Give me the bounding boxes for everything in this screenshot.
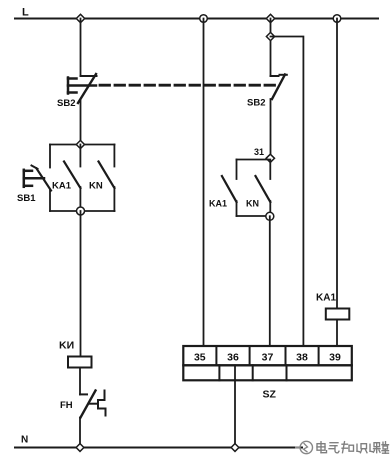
watermark icon [296,441,312,453]
wire L line [15,18,378,20]
wire coil to FH [79,368,81,395]
svg-text:L: L [22,7,29,19]
svg-text:35: 35 [194,352,206,364]
node on L at branch 1 (diamond) [76,14,84,22]
node bottom of right group (circle) [266,212,274,220]
terminal divider 36/37 [249,346,251,365]
pushbutton SB1 NO contact (start) [32,145,52,212]
left parallel group bottom rail [50,210,115,212]
wire N line [15,447,302,449]
node bottom of left group (circle) [77,207,85,215]
pushbutton SB2 NO contact (right) [271,75,287,159]
svg-text:36: 36 [227,352,239,364]
wire branch4 L to coil KA1 [336,19,338,309]
svg-text:37: 37 [262,352,274,364]
wire group to coil KИ [80,211,82,357]
node top of left group (diamond) [76,140,84,148]
wire coil KA1 to terminal 39 [336,320,338,347]
coil KA1 [326,309,350,320]
知 [342,442,354,453]
relay contact KN (right group, NO) [256,161,271,216]
svg-text:SB1: SB1 [17,193,36,204]
terminal divider 37/38 [285,346,287,365]
wire branch1 from L to SB2 [80,19,82,75]
svg-text:38: 38 [296,352,308,364]
堂 [382,442,389,454]
bottom row divider c [286,365,288,380]
svg-text:KA1: KA1 [316,293,336,304]
电 [317,442,327,453]
node on L at branch 3 (diamond) [266,14,274,22]
svg-text:31: 31 [254,147,264,157]
svg-text:39: 39 [329,352,341,364]
svg-text:KA1: KA1 [52,181,72,192]
terminal strip SZ bottom row [183,365,351,380]
pushbutton SB2 NC contact (stop) [78,74,97,103]
bottom row divider a [218,365,220,380]
mechanical link dashed line between SB2 contacts [100,84,276,87]
课 [370,443,380,453]
svg-text:SB2: SB2 [57,98,75,109]
node on N at FH branch (diamond) [76,444,84,452]
left parallel group top rail [50,144,115,146]
thermal overload contact FH (NC) [80,391,106,418]
svg-text:KN: KN [246,199,259,209]
wire SB2 to parallel group [80,100,82,145]
node on N at terminal wire (diamond) [231,444,239,452]
right parallel group top rail [237,159,271,161]
terminal strip SZ top row [183,346,351,365]
relay contact KA1 (right group, NO) [222,160,237,217]
pushbutton SB2 actuator (E) [68,78,96,94]
svg-text:N: N [21,435,28,446]
relay contact KA1 (left group, NO) [64,145,80,212]
right parallel group bottom rail [237,215,271,217]
svg-text:KN: KN [89,181,103,192]
pushbutton SB1 actuator (E) [24,170,44,187]
wire branch3b to terminal 38 [271,37,304,347]
wire right group to terminal 37 [269,216,271,346]
svg-text:FH: FH [60,400,73,411]
svg-text:KИ: KИ [59,340,74,352]
svg-text:SB2: SB2 [247,98,265,109]
wire branch3 from L to SB2 right [270,19,272,75]
svg-text:SZ: SZ [263,389,277,401]
terminal divider 35/36 [215,346,217,365]
node on L at branch 4 (circle) [333,15,341,23]
relay contact KN (left group, NO) [99,145,115,212]
bottom row divider b [252,365,254,380]
terminal divider 38/39 [318,346,320,365]
wire branch2 L to terminal 35 [203,19,205,347]
node 31 (diamond) [266,154,274,162]
node branch3 split (diamond) [266,32,274,40]
coil KИ [68,357,92,368]
svg-text:KA1: KA1 [209,199,227,209]
wire FH to N [79,418,81,448]
node on L at branch 2 (circle) [200,15,208,23]
识 [357,444,367,453]
气 [329,443,339,453]
wire terminal 36 to N [234,365,236,447]
watermark text 电气知识课堂 [317,442,389,454]
